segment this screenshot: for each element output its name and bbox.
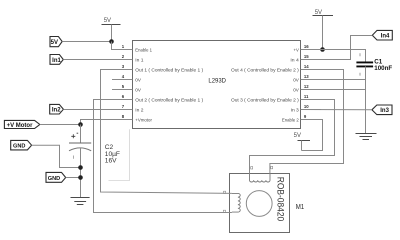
wire In2 to pin 7	[63, 109, 132, 111]
wire In4 to pin 15	[301, 36, 373, 60]
U1 pin 16 +V	[294, 44, 322, 54]
svg-text:0V: 0V	[135, 87, 141, 93]
junction node 5V/Enable1	[109, 39, 114, 44]
svg-text:In3: In3	[380, 108, 389, 114]
svg-text:Out 1 ( Controlled by Enable 1: Out 1 ( Controlled by Enable 1 )	[135, 67, 203, 73]
svg-text:100nF: 100nF	[374, 65, 392, 72]
svg-text:GND: GND	[48, 176, 60, 182]
motor pin marker top A	[251, 167, 253, 169]
wire pin 8 to junction	[81, 120, 133, 125]
motor coil winding top	[250, 174, 271, 183]
motor M1 body	[230, 174, 290, 233]
motor pin marker left C	[224, 191, 226, 193]
U1 pin 13 0V	[293, 74, 321, 84]
power symbol 5V top-left	[102, 18, 121, 42]
net flag In3	[372, 105, 392, 115]
svg-text:In 1: In 1	[135, 57, 144, 63]
ground symbol left	[71, 198, 90, 205]
wire GND lower to node	[66, 177, 81, 179]
U1 pin 15 In 4	[290, 54, 321, 64]
capacitor C1	[356, 53, 373, 75]
svg-text:M1: M1	[296, 204, 305, 211]
wire In3 to pin 10	[301, 109, 372, 111]
U1 pin 6 Out 2	[112, 94, 203, 104]
capacitor C2 lead bottom	[80, 148, 82, 197]
U1 pin 7 In 2	[112, 104, 144, 114]
wire 0V stub below IC (faint)	[109, 129, 130, 180]
junction node 5V/+V	[320, 47, 325, 52]
svg-text:In1: In1	[52, 58, 61, 64]
svg-text:In 3: In 3	[291, 107, 300, 113]
wire In1 to pin 2	[63, 59, 132, 61]
svg-text:+V Motor: +V Motor	[7, 123, 33, 129]
net flag In4	[372, 30, 392, 40]
svg-text:Enable 2: Enable 2	[282, 117, 299, 123]
svg-text:GND: GND	[13, 144, 25, 150]
U1 pin 2 In 1	[112, 54, 144, 64]
C1 value label	[374, 59, 392, 73]
svg-text:In 4: In 4	[290, 57, 299, 63]
wire junction to pin 1	[112, 42, 133, 50]
junction node GND lower	[78, 175, 83, 180]
svg-text:L293D: L293D	[208, 78, 226, 85]
wire 5V flag to junction	[62, 41, 111, 43]
power symbol 5V top-right	[313, 10, 334, 50]
net flag GND upper	[11, 140, 32, 150]
U1 pin 10 In 3	[291, 104, 321, 114]
U1 pin 1 Enable 1	[112, 44, 152, 54]
U1 pin 14 Out 4	[231, 64, 321, 74]
svg-text:+Vmotor: +Vmotor	[135, 117, 152, 123]
wire +V Motor flag to junction	[40, 124, 81, 126]
U1 pin 8 +Vmotor	[112, 114, 152, 124]
svg-text:+V: +V	[294, 47, 300, 53]
svg-text:Out 3 ( Controlled by Enable 2: Out 3 ( Controlled by Enable 2 )	[231, 97, 299, 103]
capacitor C2	[69, 133, 91, 159]
junction node +VMotor	[78, 122, 83, 127]
U1 pin 3 Out 1	[112, 64, 203, 74]
wire Out2 pin 6 to motor	[94, 100, 232, 213]
capacitor C2 lead top	[80, 125, 82, 144]
svg-text:In2: In2	[52, 108, 61, 114]
svg-text:5V: 5V	[315, 10, 322, 16]
U1 pin 5 0V	[112, 84, 142, 94]
capacitor C1 lead bottom to ground	[365, 66, 367, 133]
svg-text:In 2: In 2	[135, 107, 144, 113]
svg-text:5V: 5V	[104, 18, 111, 24]
svg-text:11: 11	[304, 94, 309, 99]
U1 pin 9 Enable 2	[282, 114, 321, 124]
junction node GND upper	[78, 165, 83, 170]
svg-text:In4: In4	[381, 34, 390, 40]
svg-text:0V: 0V	[293, 77, 299, 83]
U1 pin 12 0V	[293, 84, 321, 94]
ground symbol right	[356, 134, 377, 140]
svg-text:12: 12	[304, 84, 309, 89]
power symbol 5V lower-right	[294, 133, 310, 151]
U1 pin 4 0V	[112, 74, 142, 84]
svg-text:14: 14	[304, 64, 309, 69]
wire Out3 pin 11 to motor	[250, 100, 335, 174]
svg-text:15: 15	[304, 54, 309, 59]
svg-text:5V: 5V	[51, 40, 58, 46]
wire pin 16 to C1	[301, 50, 366, 62]
net flag In2	[50, 104, 64, 114]
svg-text:Out 4 ( Controlled by Enable 2: Out 4 ( Controlled by Enable 2 )	[231, 67, 299, 73]
svg-text:13: 13	[304, 74, 309, 79]
motor pin marker left D	[223, 210, 225, 212]
op-amp U1 L293D body	[133, 41, 301, 129]
net flag 5V left	[50, 37, 62, 47]
wire pin 12 to ground net	[301, 89, 366, 91]
U1 pin 11 Out 3	[231, 94, 321, 104]
net flag In1	[50, 55, 63, 65]
svg-text:Enable 1: Enable 1	[135, 47, 152, 53]
svg-text:16V: 16V	[105, 158, 117, 165]
wire Out1 pin 3 to motor	[101, 70, 232, 194]
svg-text:0V: 0V	[135, 77, 141, 83]
motor pin marker top B	[271, 166, 273, 168]
svg-text:0V: 0V	[293, 87, 299, 93]
wire Out4 pin 14 to motor	[270, 70, 344, 174]
C2 value label	[105, 144, 120, 165]
svg-text:ROB-08420: ROB-08420	[276, 177, 286, 222]
wire pin 9 to 5V lower-right	[301, 120, 323, 151]
wire GND upper to node	[32, 145, 81, 167]
net flag GND lower	[46, 172, 66, 182]
svg-text:10: 10	[304, 104, 309, 109]
motor M1 rotor circle	[246, 191, 272, 217]
motor coil winding left	[232, 193, 240, 212]
wire pin 13 to ground net	[301, 79, 366, 81]
net flag +V Motor	[4, 120, 39, 129]
svg-text:Out 2 ( Controlled by Enable 1: Out 2 ( Controlled by Enable 1 )	[135, 97, 203, 103]
svg-text:16: 16	[304, 44, 309, 49]
svg-text:5V: 5V	[294, 133, 301, 139]
